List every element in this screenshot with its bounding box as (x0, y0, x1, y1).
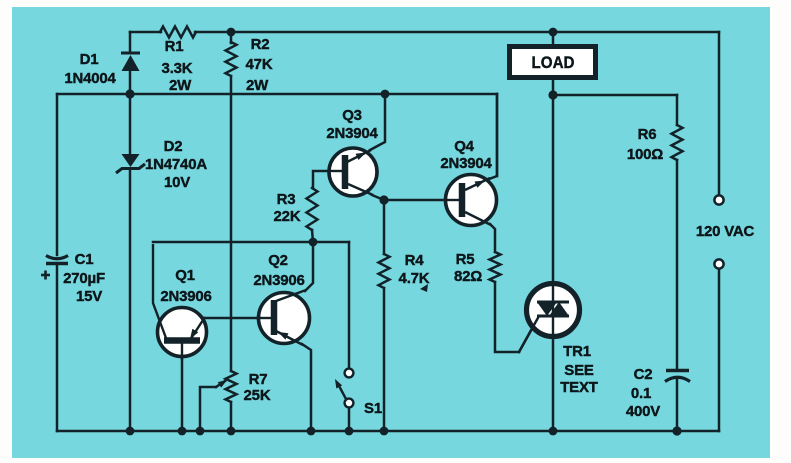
wire R5 to TR1 gate (495, 282, 519, 352)
svg-text:2N3904: 2N3904 (326, 125, 378, 142)
svg-text:SEE: SEE (564, 362, 594, 379)
LOAD box (510, 47, 596, 78)
wire y95 LOAD to R6 corner (553, 94, 677, 97)
wire R4 top lead (383, 200, 386, 254)
wire R7 wiper arrow shaft (216, 381, 225, 387)
svg-text:2N3906: 2N3906 (253, 272, 304, 289)
wire LOAD top lead (552, 32, 555, 46)
svg-text:TR1: TR1 (563, 343, 591, 360)
node R2 top (227, 28, 236, 37)
svg-text:D1: D1 (80, 51, 99, 68)
svg-text:15V: 15V (76, 288, 102, 305)
svg-text:TEXT: TEXT (560, 379, 598, 396)
wire Q3 base to R3 (313, 171, 342, 188)
wire bottom rail (57, 430, 719, 433)
wire left rail lower (below C1) (56, 264, 59, 431)
node bottom TR1 (549, 427, 558, 436)
wire Q2 collector riser (305, 242, 313, 291)
wire D2 to bottom rail (129, 169, 132, 431)
wire x497 drop to Q4 emitter (496, 94, 499, 176)
terminal upper 120VAC (714, 195, 723, 204)
node bottom R4 (380, 427, 389, 436)
resistor R5 (490, 252, 501, 282)
resistor R7 (226, 371, 237, 402)
wire C2 to bottom rail (676, 379, 679, 431)
resistor R6 (672, 125, 683, 160)
wire R4 to bottom rail (383, 288, 386, 431)
svg-text:R1: R1 (165, 38, 184, 55)
svg-text:C1: C1 (75, 251, 94, 268)
wire D1 to rail junction (129, 71, 132, 94)
wire Q2 emitter to bottom rail (302, 344, 311, 431)
wire TR1 gate diagonal (519, 316, 539, 352)
svg-text:C2: C2 (634, 366, 653, 383)
svg-text:2N3904: 2N3904 (440, 155, 492, 172)
svg-text:25K: 25K (244, 387, 271, 404)
capacitor C2 (665, 371, 690, 382)
wire Q3 emitter riser (370, 94, 385, 150)
svg-text:S1: S1 (364, 400, 382, 417)
wire top rail left segment (130, 31, 161, 34)
svg-text:1N4004: 1N4004 (64, 70, 116, 87)
small arrow artifact below 4.7K (420, 284, 428, 292)
wire top rail right segment (195, 31, 719, 34)
svg-text:2W: 2W (246, 77, 269, 94)
svg-text:3.3K: 3.3K (162, 60, 193, 77)
transistor Q2 (256, 290, 310, 345)
wire R7 to bottom rail (230, 402, 233, 431)
svg-text:22K: 22K (274, 208, 301, 225)
svg-text:R5: R5 (456, 251, 475, 268)
svg-text:D2: D2 (164, 138, 183, 155)
R7 wiper arrowhead (218, 380, 227, 388)
svg-text:Q3: Q3 (342, 107, 362, 124)
svg-text:47K: 47K (246, 56, 273, 73)
node bottom S1 (345, 427, 354, 436)
svg-text:2N3906: 2N3906 (160, 288, 211, 305)
triac TR1 (519, 284, 580, 353)
node LOAD top (549, 28, 558, 37)
svg-text:82Ω: 82Ω (454, 268, 482, 285)
svg-text:120 VAC: 120 VAC (696, 223, 755, 240)
wire LOAD bottom lead down to TR1 (552, 79, 555, 290)
wire Q1 base down to rail (181, 344, 184, 431)
node y242 junction (309, 238, 318, 247)
resistor R3 (307, 188, 318, 230)
svg-text:Q2: Q2 (268, 252, 288, 269)
wire Q4 base (384, 199, 459, 202)
wire D1 top lead (129, 32, 132, 53)
node R4 top (379, 195, 388, 204)
wire lower terminal to bottom rail (718, 269, 721, 431)
svg-text:R3: R3 (277, 191, 296, 208)
wire R3 to node (312, 230, 313, 242)
wire main rail y94 (57, 93, 497, 96)
capacitor C1 (41, 256, 68, 280)
svg-text:4.7K: 4.7K (399, 270, 430, 287)
wire R7 wiper riser (200, 387, 216, 431)
wire right side drop to upper terminal (718, 32, 721, 195)
switch S1 (335, 369, 353, 408)
wire Q4 emitter riser (489, 94, 497, 179)
terminal lower 120VAC (714, 259, 723, 268)
wire y242 horizontal Q1-to-S1 (153, 241, 349, 244)
svg-text:R4: R4 (405, 252, 425, 269)
svg-text:LOAD: LOAD (532, 53, 575, 72)
resistor R2 (226, 42, 237, 76)
svg-text:R7: R7 (249, 371, 268, 388)
wire R2 bottom long vertical to R7 (230, 76, 233, 371)
wire TR1 to bottom rail (552, 332, 555, 431)
wire S1 bottom lead (348, 407, 351, 431)
svg-text:400V: 400V (626, 403, 660, 420)
transistor Q4 (446, 175, 497, 226)
transistor Q1 (153, 244, 207, 360)
wire Q1 emitter to Q2 base (204, 317, 258, 320)
node bottom R7 (227, 427, 236, 436)
node bottom Q1 base (178, 427, 187, 436)
wire left rail upper (above C1) (56, 94, 59, 255)
svg-text:2W: 2W (169, 77, 192, 94)
svg-text:Q1: Q1 (175, 267, 195, 284)
svg-text:1N4740A: 1N4740A (145, 156, 207, 173)
node D1 rail (125, 89, 134, 98)
wire rail to D2 (129, 94, 132, 154)
zener diode D2 (116, 154, 145, 173)
resistor R4 (379, 254, 390, 288)
node bottom Q2 emitter (307, 427, 316, 436)
svg-text:0.1: 0.1 (631, 385, 651, 402)
node bottom wiper (196, 427, 205, 436)
wire Q3 collector to node (372, 195, 384, 200)
svg-text:10V: 10V (164, 174, 190, 191)
svg-text:100Ω: 100Ω (627, 146, 663, 163)
transistor Q3 (329, 148, 377, 196)
wire R2 top lead (230, 32, 233, 43)
svg-text:R6: R6 (638, 126, 657, 143)
node bottom D2 (126, 427, 135, 436)
svg-text:R2: R2 (251, 36, 270, 53)
diode D1 (121, 53, 140, 71)
svg-text:270µF: 270µF (63, 270, 105, 287)
node Q3 emitter rail (381, 90, 390, 99)
wire Q4 collector to R5 (490, 224, 495, 252)
wire R6 down to C2 (676, 160, 679, 369)
node LOAD bottom (548, 90, 557, 99)
svg-text:Q4: Q4 (454, 138, 474, 155)
wire R6 top lead (676, 95, 679, 125)
node bottom C2 (672, 426, 681, 435)
resistor R1 (160, 27, 196, 38)
wire S1 drop (348, 242, 351, 369)
